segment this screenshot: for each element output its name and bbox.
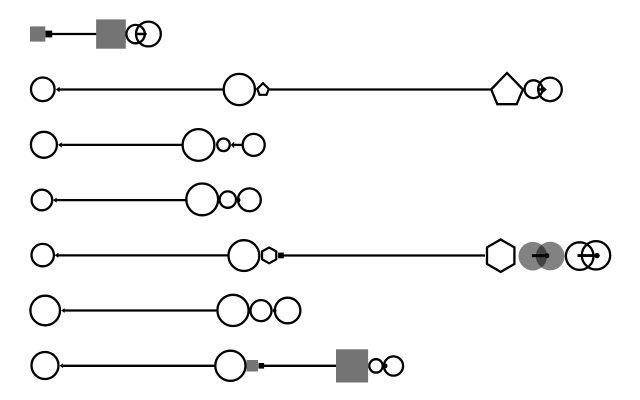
node R5H outlined circle 2 bbox=[582, 241, 610, 269]
node R6D right circle bbox=[275, 298, 301, 324]
node R5E gray filled circle 1 bbox=[519, 242, 548, 271]
arrowhead row6 left bbox=[61, 308, 64, 313]
node R5G outlined circle 1 bbox=[566, 242, 594, 270]
node R5B large circle bbox=[229, 240, 260, 271]
wire row1 short edge with arrowhead bbox=[136, 33, 144, 36]
node R5C small hexagon bbox=[262, 248, 276, 264]
dot arrowhead row6 bbox=[273, 309, 277, 313]
node R4C small circle bbox=[220, 191, 236, 207]
node R3D right circle bbox=[243, 134, 265, 156]
node R1D large circle bbox=[136, 22, 161, 47]
node R7B large circle bbox=[215, 351, 245, 381]
wire row5 edge line 2 bbox=[281, 254, 485, 256]
node R5F gray filled circle 2 bbox=[536, 242, 565, 271]
node R4D right circle bbox=[238, 188, 261, 211]
node R7D large gray square bbox=[336, 349, 368, 382]
row 4 bbox=[32, 184, 261, 216]
node R4A left circle bbox=[32, 190, 53, 211]
arrowhead row4 left bbox=[53, 198, 57, 203]
node R6C middle circle bbox=[251, 300, 272, 321]
box arrowhead row1 bbox=[45, 31, 52, 38]
node R3A left circle bbox=[31, 132, 57, 158]
row 5 bbox=[32, 240, 611, 272]
box arrowhead row5 bbox=[278, 253, 284, 259]
arrowhead row5 left bbox=[55, 253, 59, 258]
wire row6 edge line bbox=[64, 309, 217, 311]
node R1B large gray square bbox=[96, 19, 126, 48]
row 1 bbox=[30, 19, 161, 48]
node R1A small gray square bbox=[30, 26, 45, 41]
wire row4 edge line bbox=[56, 199, 186, 201]
node R5D large hexagon bbox=[487, 240, 514, 272]
wire row7 edge line 1 bbox=[62, 365, 214, 367]
dot arrowhead row4 bbox=[236, 198, 241, 203]
wire row1 edge line bbox=[49, 33, 97, 35]
node R1C small circle bbox=[126, 25, 144, 43]
node R2D large pentagon bbox=[491, 73, 523, 104]
dot arrowhead row7 bbox=[383, 363, 388, 368]
wire row5 short edge with dot arrowhead (gray pair) bbox=[532, 254, 544, 257]
node R2C small pentagon bbox=[257, 83, 269, 95]
node R2E small circle bbox=[525, 80, 543, 98]
node R7C small gray square bbox=[247, 360, 259, 372]
node R7E small circle bbox=[369, 359, 382, 372]
row 7 bbox=[32, 349, 404, 382]
node R7A left circle bbox=[32, 352, 59, 379]
row 2 bbox=[31, 73, 562, 105]
arrowhead row2 left bbox=[56, 87, 60, 92]
node R2B large circle bbox=[224, 74, 255, 105]
node R6A left circle bbox=[30, 296, 60, 326]
wire row5 short edge with dot arrowhead (outlined pair) bbox=[578, 254, 595, 257]
node R3B large circle bbox=[183, 129, 215, 161]
wire row7 edge line 2 bbox=[261, 365, 336, 367]
node R7F right circle bbox=[384, 356, 403, 375]
row 3 bbox=[31, 129, 265, 161]
arrowhead row7 left bbox=[60, 363, 63, 368]
node R3C small circle bbox=[217, 139, 230, 152]
row 6 bbox=[30, 295, 300, 326]
wire row5 edge line 1 bbox=[58, 254, 228, 256]
wire row2 short edge with arrowhead bbox=[537, 88, 543, 91]
node R5A left circle bbox=[32, 244, 54, 266]
wire row3 edge line bbox=[61, 144, 182, 146]
box arrowhead row7 bbox=[259, 363, 265, 369]
node R2A left circle bbox=[31, 78, 55, 102]
node R4B large circle bbox=[186, 184, 218, 216]
arrowhead row3 left bbox=[58, 142, 62, 147]
wire row3 short edge with arrowhead bbox=[234, 144, 242, 146]
node R6B large circle bbox=[217, 295, 248, 326]
wire row2 edge line 1 bbox=[59, 88, 224, 90]
node R2F large circle bbox=[538, 78, 562, 102]
wire row2 edge line 2 bbox=[269, 88, 491, 90]
